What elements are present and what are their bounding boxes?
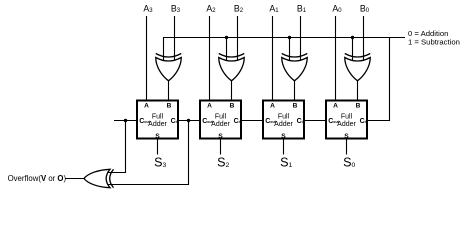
wire: X2 output to B pin of U2 bbox=[231, 81, 233, 101]
svg-text:A2: A2 bbox=[206, 3, 216, 14]
svg-text:A: A bbox=[144, 103, 149, 110]
wire: X0 output to B pin of U0 bbox=[357, 81, 359, 101]
xor gate X3 bbox=[156, 54, 182, 81]
wire: input B2 to XOR gate bbox=[237, 16, 239, 62]
svg-text:A: A bbox=[270, 103, 275, 110]
svg-text:A1: A1 bbox=[269, 3, 279, 14]
full adder U0 bbox=[326, 101, 368, 140]
svg-text:S2: S2 bbox=[217, 155, 229, 169]
wire: carry Cout U2 to Cin U3 bbox=[178, 120, 200, 122]
svg-text:B0: B0 bbox=[360, 3, 370, 14]
svg-text:Full: Full bbox=[278, 114, 290, 121]
wire: carry Cout U1 to Cin U2 bbox=[241, 120, 263, 122]
svg-text:B: B bbox=[230, 103, 235, 110]
wire: control line drop to Cin of U0 bbox=[367, 38, 390, 121]
svg-text:Full: Full bbox=[215, 114, 227, 121]
wire: input B1 to XOR gate bbox=[300, 16, 302, 62]
wire: add/subtract control line bbox=[164, 38, 406, 63]
wire: sum output S1 bbox=[283, 139, 285, 155]
svg-text:B2: B2 bbox=[234, 3, 244, 14]
svg-text:A: A bbox=[207, 103, 212, 110]
wire: X1 output to B pin of U1 bbox=[294, 81, 296, 101]
svg-text:S0: S0 bbox=[343, 155, 355, 169]
wire: control drop to XOR X0 bbox=[352, 38, 354, 63]
svg-text:B3: B3 bbox=[171, 3, 181, 14]
xor gate X2 bbox=[219, 54, 245, 81]
wire: input A3 to full adder bbox=[146, 16, 148, 101]
wire: Cin(U3) branch to overflow XOR bottom input bbox=[104, 121, 189, 185]
node: junction on Cout of U3 (to overflow XOR) bbox=[124, 119, 127, 122]
svg-text:Adder: Adder bbox=[274, 121, 293, 128]
wire: input B0 to XOR gate bbox=[363, 16, 365, 62]
svg-text:A3: A3 bbox=[143, 3, 153, 14]
svg-text:Adder: Adder bbox=[337, 121, 356, 128]
svg-text:B: B bbox=[293, 103, 298, 110]
svg-text:B: B bbox=[167, 103, 172, 110]
svg-text:S1: S1 bbox=[280, 155, 292, 169]
full adder U1 bbox=[263, 101, 305, 140]
wire: control drop to XOR X2 bbox=[226, 38, 228, 63]
wire: X3 output to B pin of U3 bbox=[168, 81, 170, 101]
wire: input A0 to full adder bbox=[335, 16, 337, 101]
xor gate X4 (overflow detect) bbox=[84, 169, 114, 187]
full adder U2 bbox=[200, 101, 242, 140]
svg-text:S3: S3 bbox=[154, 155, 166, 169]
wire: overflow XOR output bbox=[66, 178, 85, 180]
full adder U3 bbox=[137, 101, 179, 140]
wire: final carry out stub from U3 bbox=[114, 120, 137, 122]
xor gate X1 bbox=[282, 54, 308, 81]
svg-text:Overflow(V or O): Overflow(V or O) bbox=[8, 174, 67, 183]
xor gate X0 bbox=[345, 54, 371, 81]
wire: carry Cout U0 to Cin U1 bbox=[304, 120, 326, 122]
wire: input A1 to full adder bbox=[272, 16, 274, 101]
svg-text:B: B bbox=[356, 103, 361, 110]
svg-text:Full: Full bbox=[152, 114, 164, 121]
node: control tap for X0 bbox=[351, 36, 354, 39]
svg-text:Full: Full bbox=[341, 114, 353, 121]
svg-text:Adder: Adder bbox=[148, 121, 167, 128]
wire: control drop to XOR X1 bbox=[289, 38, 291, 63]
svg-text:Adder: Adder bbox=[211, 121, 230, 128]
node: control tap for X2 bbox=[225, 36, 228, 39]
node: junction on Cin of U3 (to overflow XOR) bbox=[187, 119, 190, 122]
svg-text:A: A bbox=[333, 103, 338, 110]
wire: sum output S0 bbox=[346, 139, 348, 155]
node: control tap for X1 bbox=[288, 36, 291, 39]
svg-text:B1: B1 bbox=[297, 3, 307, 14]
svg-text:1 = Subtraction: 1 = Subtraction bbox=[408, 37, 460, 46]
wire: Cout(U3) branch to overflow XOR top input bbox=[104, 121, 126, 173]
wire: sum output S3 bbox=[157, 139, 159, 155]
wire: input A2 to full adder bbox=[209, 16, 211, 101]
wire: sum output S2 bbox=[220, 139, 222, 155]
svg-text:A0: A0 bbox=[332, 3, 342, 14]
wire: input B3 to XOR gate bbox=[174, 16, 176, 62]
